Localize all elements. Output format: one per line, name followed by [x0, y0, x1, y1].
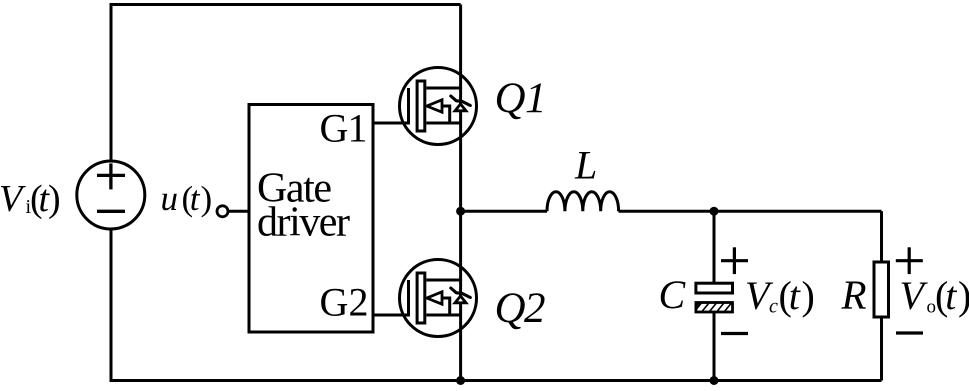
Q1 source arrow	[427, 100, 442, 112]
svg-text:t: t	[789, 273, 801, 318]
svg-text:G1: G1	[320, 106, 368, 151]
Q1 arrow tail	[442, 106, 450, 123]
Q1 body diode triangle	[455, 104, 466, 111]
svg-text:G2: G2	[320, 280, 369, 325]
wire capacitor branch upper	[713, 211, 716, 283]
svg-text:c: c	[769, 296, 778, 318]
resistor plus sign	[896, 247, 923, 274]
Q2 body diode triangle	[455, 296, 466, 303]
node capacitor bottom	[710, 376, 719, 385]
wire capacitor branch lower	[713, 312, 716, 381]
label Vc(t)	[745, 273, 815, 318]
wire half-bridge vertical	[459, 5, 462, 381]
svg-text:C: C	[659, 272, 687, 317]
svg-text:t: t	[190, 179, 201, 218]
svg-text:t: t	[945, 273, 957, 318]
label Vo(t)	[900, 273, 969, 318]
Q1 circle	[400, 68, 477, 145]
inductor L coil	[547, 192, 619, 212]
svg-text:driver: driver	[257, 199, 350, 245]
Q2 body diode cathode bar	[451, 288, 471, 298]
label Vi(t)	[0, 178, 61, 220]
Q1 source connection	[426, 122, 460, 125]
capacitor plus sign	[721, 247, 748, 274]
Q1 channel bar	[417, 81, 425, 131]
wire bottom rail	[110, 379, 882, 382]
svg-text:u: u	[161, 179, 179, 218]
resistor R body	[874, 262, 889, 317]
svg-text:Q2: Q2	[495, 285, 546, 332]
Q2 circle	[400, 260, 477, 337]
svg-text:): )	[48, 178, 61, 220]
Q1 gate electrode line	[407, 88, 410, 125]
capacitor C top plate	[696, 283, 733, 293]
svg-text:L: L	[574, 143, 597, 188]
wire left rail upper	[110, 3, 113, 160]
node bridge bottom	[456, 376, 465, 385]
voltage source plus sign	[97, 163, 125, 189]
svg-text:): )	[802, 273, 815, 318]
svg-text:): )	[958, 273, 969, 318]
Q2 source connection	[426, 314, 460, 317]
wire G2 to Q2 gate	[373, 314, 409, 317]
svg-text:V: V	[0, 178, 26, 220]
wire right branch lower	[880, 317, 883, 381]
wire inductor to right corner	[619, 210, 882, 213]
node capacitor top	[710, 207, 719, 216]
Q2 drain connection	[426, 279, 460, 282]
transistor Q2	[400, 260, 477, 337]
wire right branch upper	[880, 211, 883, 262]
node switch midpoint	[456, 207, 465, 216]
gate driver box	[249, 105, 373, 333]
transistor Q1	[400, 68, 477, 145]
wire G1 to Q1 gate	[373, 122, 409, 125]
input terminal circle	[217, 206, 228, 217]
Q2 arrow tail	[442, 298, 450, 315]
svg-text:): )	[201, 179, 213, 218]
voltage source Vi circle	[77, 161, 145, 229]
label u(t)	[161, 179, 213, 218]
wire top rail	[111, 3, 461, 6]
capacitor C bottom plate hatched	[695, 299, 739, 316]
Q2 source arrow	[427, 292, 442, 304]
resistor minus sign	[896, 331, 923, 334]
wire mid node to inductor	[461, 210, 547, 213]
voltage source minus sign	[97, 210, 125, 213]
capacitor minus sign	[721, 332, 748, 335]
wire left rail lower	[110, 230, 113, 380]
svg-text:R: R	[841, 272, 867, 318]
Q1 drain connection	[426, 87, 460, 90]
wire terminal to gate driver	[228, 210, 249, 213]
svg-text:Q1: Q1	[495, 75, 547, 122]
Q2 gate electrode line	[407, 280, 410, 317]
Q1 body diode cathode bar	[451, 96, 471, 106]
Q2 channel bar	[417, 273, 425, 323]
